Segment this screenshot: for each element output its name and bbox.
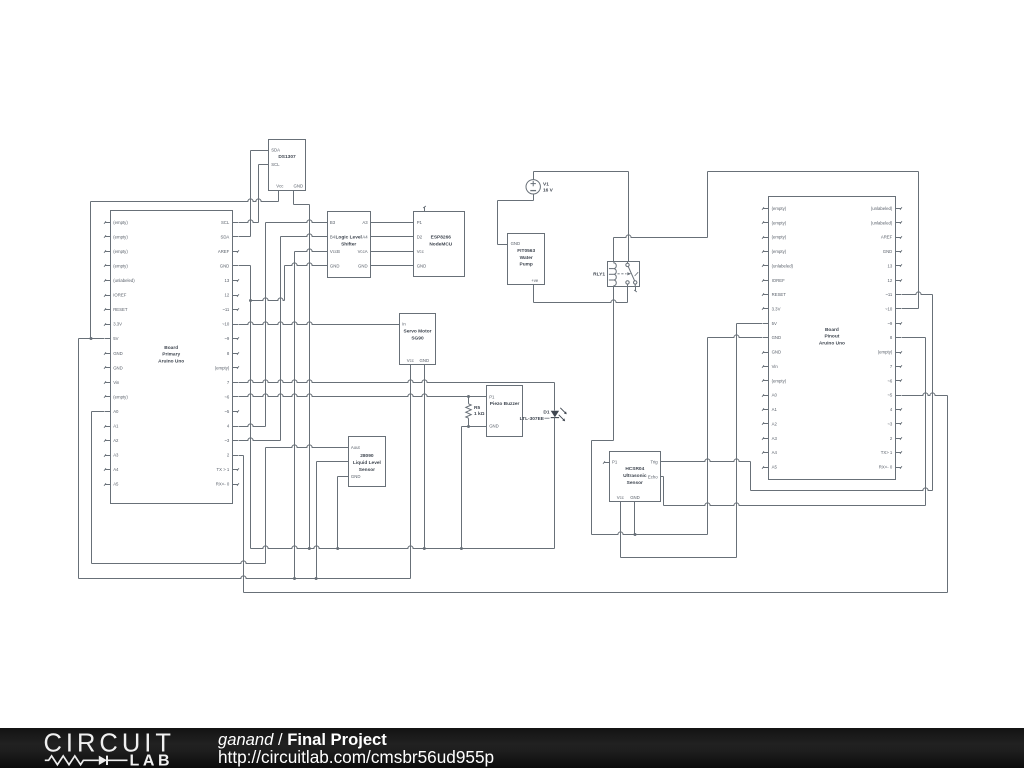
svg-text:GND: GND [420,358,430,363]
svg-text:Trig: Trig [650,460,658,465]
svg-text:SDA: SDA [220,234,229,239]
svg-text:B3: B3 [330,220,336,225]
svg-text:A4: A4 [113,467,119,472]
wire relay coil gnd jog [592,440,614,442]
svg-text:~11: ~11 [885,292,893,297]
wire GND bottom rail [251,546,555,550]
board U1 Primary Arduino Uno [104,211,239,504]
svg-text:Shifter: Shifter [341,242,356,248]
svg-text:IOREF: IOREF [113,293,127,298]
wire sensor Vcc row [317,461,349,463]
svg-text:(unlabeled): (unlabeled) [871,220,893,225]
relay RLY1 [593,261,639,292]
svg-text:(empty): (empty) [113,264,128,269]
svg-text:A5: A5 [113,482,119,487]
wire board2 5V row [737,323,763,325]
liquid level sensor U6 28090 [349,437,386,487]
svg-text:~3: ~3 [887,421,893,426]
svg-text:(empty): (empty) [772,220,787,225]
svg-text:~6: ~6 [224,394,230,399]
svg-text:Pump: Pump [520,262,533,268]
svg-text:SCL: SCL [221,220,230,225]
wire HCSR04 Vcc drop [620,502,622,558]
svg-text:5V: 5V [772,321,777,326]
wire GND jog riser [284,266,286,301]
svg-text:(empty): (empty) [215,365,230,370]
wire relay throw drop [627,287,629,303]
wire board1 pin7 row to LED [239,380,555,383]
svg-text:28090: 28090 [360,453,374,459]
wire relay coil gnd riser [591,441,593,535]
svg-text:A2: A2 [772,421,778,426]
svg-text:~11: ~11 [222,307,230,312]
svg-text:RLY1: RLY1 [593,272,605,278]
svg-text:GND: GND [113,365,123,370]
svg-text:GND: GND [772,350,782,355]
svg-text:A4: A4 [772,450,778,455]
wire 5V down leg [78,339,80,579]
svg-text:V1: V1 [543,181,549,187]
wire shifter VccB drop to 5V rail [294,252,296,579]
wire shifter to ESP row A3-P1 [371,222,414,224]
svg-text:(unlabeled): (unlabeled) [871,206,893,211]
svg-text:3.3V: 3.3V [772,307,781,312]
wire V1 top rail [534,171,629,173]
svg-text:SCL: SCL [271,162,280,167]
water pump M2 FIT0563 [508,234,545,285]
svg-text:A0: A0 [113,409,119,414]
wire LED anode drop [554,383,556,411]
svg-text:(unlabeled): (unlabeled) [772,263,794,268]
svg-text:LAB: LAB [130,752,174,768]
svg-text:DS1307: DS1307 [278,154,296,160]
wire buzzer GND drop [461,427,463,549]
svg-text:ESP8266: ESP8266 [431,235,452,241]
wire GND jog horizontal [251,298,285,301]
svg-text:A4: A4 [362,234,368,239]
svg-text:GND: GND [294,184,304,189]
svg-text:(empty): (empty) [772,206,787,211]
footer title text [218,730,494,767]
svg-text:AREF: AREF [218,249,230,254]
svg-text:A3: A3 [362,220,368,225]
svg-text:VccA: VccA [358,249,368,254]
svg-text:LTL-307EE: LTL-307EE [520,416,545,422]
svg-text:TX> 1: TX> 1 [881,450,893,455]
svg-text:A1: A1 [113,424,119,429]
wire pin8 drop to Echo rail [925,338,927,506]
wire board1 SCL row [239,220,259,223]
wire board1 5V pin row [79,337,105,340]
svg-text:Vin: Vin [113,380,120,385]
svg-text:Vcc: Vcc [617,495,625,500]
wire top 5V rail to DS1307 Vcc [91,199,279,202]
wire relay coil pin riser [613,238,615,262]
svg-text:Water: Water [520,255,533,261]
svg-text:(empty): (empty) [113,249,128,254]
svg-text:Echo: Echo [648,474,658,479]
wire coil rail riser [707,172,709,238]
svg-text:HCSR04: HCSR04 [625,466,644,472]
wire servo GND drop [424,365,426,549]
svg-text:~10: ~10 [222,322,230,327]
wire board2 pin8 row [902,337,926,339]
wire board2 GND row [708,335,763,338]
wire DS1307 GND pin drop [293,191,295,205]
wire HCSR04 Trig row [661,459,751,462]
wire shifter to ESP row VccA-Vcc [371,251,414,253]
wire board1 GND down leg [249,266,252,549]
wire B3 to pin4 link [265,223,267,427]
wire HCSR04 Echo row [661,476,664,478]
svg-text:Servo Motor: Servo Motor [404,328,432,334]
svg-text:In: In [402,322,406,327]
svg-text:RESET: RESET [113,307,128,312]
wire relay HCSR04 GND rail [592,532,708,536]
svg-text:GND: GND [489,424,499,429]
wire shifter B4 row [281,234,328,237]
svg-text:Board: Board [825,327,839,333]
wire board1 pin4 row [239,424,266,427]
svg-text:VccB: VccB [330,249,340,254]
svg-text:TX > 1: TX > 1 [217,467,230,472]
svg-text:GND: GND [330,264,340,269]
wire sensor Aout drop [265,448,267,564]
wire board1 A0 pin row [92,411,105,413]
voltage source V1 16 V [526,180,554,194]
svg-text:http://circuitlab.com/cmsbr56u: http://circuitlab.com/cmsbr56ud955p [218,747,494,767]
svg-text:(empty): (empty) [772,378,787,383]
wire pin2 down leg [243,456,245,593]
wire board2 GND drop [707,338,709,535]
level shifter U4 Logic Level Shifter [328,212,371,278]
svg-text:5V: 5V [113,336,118,341]
wire board1 pin6 row to buzzer [239,394,487,398]
wire B4 to pin3 link [280,237,282,441]
wire shifter B3 row [266,220,328,223]
svg-text:(empty): (empty) [113,234,128,239]
svg-text:AREF: AREF [881,235,893,240]
board U2 Pinout Arduino Uno [762,197,902,480]
piezo buzzer P1 [487,386,523,437]
svg-text:SG90: SG90 [411,335,424,341]
svg-text:12: 12 [888,278,893,283]
servo motor M1 SG90 [400,314,436,365]
wire A0 rail to sensor Aout [92,561,266,564]
wire drop to board2 pin10 [918,172,920,309]
svg-text:A3: A3 [113,453,119,458]
svg-text:Sensor: Sensor [627,480,643,486]
svg-text:(empty): (empty) [113,220,128,225]
wire relay coil minus drop [613,287,615,441]
svg-text:P1: P1 [612,460,618,465]
svg-text:~5: ~5 [887,393,893,398]
svg-text:A0: A0 [772,393,778,398]
svg-text:Primary: Primary [162,352,180,358]
wire pump GND riser [497,201,499,245]
svg-text:GND: GND [883,249,893,254]
wire pump +ve drop [533,285,535,303]
svg-text:RX<- 0: RX<- 0 [216,482,230,487]
svg-text:(empty): (empty) [878,350,893,355]
svg-text:Logic Level: Logic Level [336,235,362,241]
svg-text:GND: GND [358,264,368,269]
svg-text:Vcc: Vcc [407,358,415,363]
svg-text:~5: ~5 [224,409,230,414]
svg-text:A2: A2 [113,438,119,443]
svg-text:12: 12 [225,293,230,298]
svg-text:GND: GND [351,474,361,479]
wire Echo rail [664,503,926,506]
svg-text:A5: A5 [772,465,778,470]
wire Trig jog drop [750,462,752,491]
wire 5V bottom rail [79,576,411,580]
svg-text:Aruino Uno: Aruino Uno [158,359,184,365]
svg-text:13: 13 [888,263,893,268]
svg-text:3.3V: 3.3V [113,322,122,327]
svg-text:IOREF: IOREF [772,278,786,283]
svg-text:(empty): (empty) [772,249,787,254]
svg-text:Aout: Aout [351,445,361,450]
wire top right rail [708,171,919,173]
RTC U3 DS1307 [269,140,306,191]
svg-text:16 V: 16 V [543,187,554,193]
svg-text:P1: P1 [489,394,495,399]
wire board2 pin11 row [902,292,933,295]
wire pin11 drop to Trig rail [932,295,934,491]
wire riser to board2 pin5 [947,396,949,593]
wire HCSR04 Echo jog [663,477,665,506]
wire sensor Vcc drop [316,462,318,579]
svg-text:~9: ~9 [887,321,893,326]
CircuitLab logo wordmark [44,730,175,768]
svg-text:FIT0563: FIT0563 [517,248,535,254]
resistor R5 1 kOhm [466,397,485,426]
wire servo Vcc drop [410,365,412,579]
svg-text:GND: GND [113,351,123,356]
svg-text:D2: D2 [417,234,423,239]
svg-text:A3: A3 [772,436,778,441]
svg-text:(empty): (empty) [772,235,787,240]
svg-text:(unlabeled): (unlabeled) [113,278,135,283]
wire V1 plus stub [533,172,535,180]
svg-text:~3: ~3 [224,438,230,443]
wire buzzer GND row [462,425,487,428]
svg-text:Liquid Level: Liquid Level [353,460,381,466]
svg-text:GND: GND [630,495,640,500]
wire sensor GND row [338,476,349,478]
wire DS1307 GND drop [309,205,311,549]
svg-text:Piezo Buzzer: Piezo Buzzer [490,401,520,407]
wire sensor GND drop [337,477,339,549]
wire relay coil rail [614,235,708,238]
wire DS1307 SDA pin [251,150,269,152]
logo resistor-diode symbol [45,756,128,765]
svg-text:Aruino Uno: Aruino Uno [819,341,845,347]
wire SCL riser to DS1307 [258,165,260,223]
svg-text:Ultrasonic: Ultrasonic [623,473,647,479]
wire Trig rail [751,488,933,491]
wire V1 minus jog [498,200,534,202]
wire board1 pin2 row [239,455,244,457]
wire shifter VccB row [295,249,328,252]
svg-text:RESET: RESET [772,292,787,297]
wire shifter to ESP row GND-GND [371,265,414,267]
wire HCSR04 Vcc rail [621,557,737,559]
svg-text:ganand / Final Project: ganand / Final Project [218,730,387,749]
wire DS1307 SCL pin [259,164,269,166]
wire HCSR04 GND drop [634,502,636,535]
ultrasonic sensor U7 HCSR04 [603,452,661,502]
svg-text:Vin: Vin [772,364,779,369]
wire A0 down leg [91,412,93,564]
LED D1 LTL-307EE [520,408,567,422]
svg-text:Sensor: Sensor [359,467,375,473]
wire V1 minus stub [533,195,535,201]
svg-text:A1: A1 [772,407,778,412]
svg-text:~6: ~6 [887,378,893,383]
svg-text:Pinout: Pinout [824,334,839,340]
wire board1 pin10 row to servo In [239,322,400,325]
footer bar [0,728,1024,768]
svg-text:(empty): (empty) [113,394,128,399]
svg-text:SDA: SDA [271,147,280,152]
wire board2 5V drop [736,324,738,558]
wire V1 to relay common [628,172,630,262]
wire pump to relay rail [534,300,628,303]
svg-text:Board: Board [164,345,178,351]
svg-text:GND: GND [417,264,427,269]
wire shifter to ESP row A4-D2 [371,236,414,238]
wire board1 GND row [239,265,251,267]
svg-text:NodeMCU: NodeMCU [429,242,452,248]
svg-text:R5: R5 [474,405,480,411]
svg-text:~9: ~9 [224,336,230,341]
wire board2 pin5 row [902,393,948,396]
svg-text:~10: ~10 [885,307,893,312]
svg-text:Vcc: Vcc [276,184,284,189]
svg-text:1 kΩ: 1 kΩ [474,411,485,417]
wire shifter GND row [285,263,328,266]
wire board2 pin10 row [902,308,919,310]
svg-text:GND: GND [220,264,230,269]
svg-text:13: 13 [225,278,230,283]
svg-text:GND: GND [511,241,521,246]
wire pump GND row [498,244,508,246]
wire DS1307 GND jog [294,204,310,206]
wire LED cathode drop [554,418,556,549]
module U5 ESP8266 NodeMCU [414,206,465,277]
svg-text:D1: D1 [543,409,549,415]
wire long bottom rail [244,592,948,594]
svg-text:Vcc: Vcc [417,249,425,254]
wire board1 pin3 row [239,438,281,441]
wire 5V riser from board 1 [90,202,92,339]
wire DS1307 Vcc pin drop [278,191,280,202]
svg-text:P1: P1 [417,220,423,225]
wire SDA riser to DS1307 [250,151,252,237]
svg-text:GND: GND [772,335,782,340]
wire board1 SDA row [239,236,251,238]
svg-text:+ve: +ve [531,278,539,283]
wire sensor Aout row [266,445,349,448]
svg-text:RX<- 0: RX<- 0 [879,465,893,470]
